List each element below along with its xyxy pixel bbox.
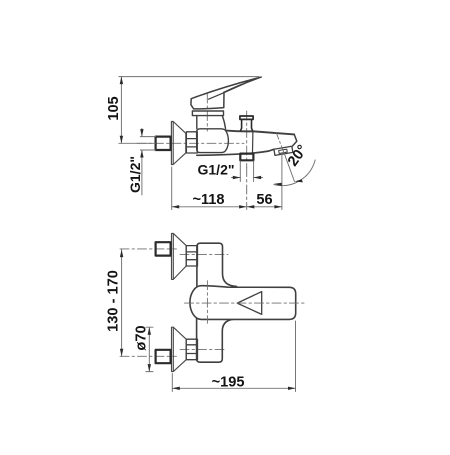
escutcheon top view xyxy=(171,122,185,165)
upper hex nut xyxy=(186,246,197,266)
centerline vertical diverter/outlet xyxy=(246,111,248,168)
spout/handle silhouette xyxy=(190,286,296,320)
lower tube xyxy=(197,318,237,363)
spout joint line xyxy=(252,132,254,152)
dimension ~195 xyxy=(172,321,295,392)
centerline horizontal top view xyxy=(137,142,244,144)
lower wall nipple xyxy=(156,350,171,363)
centerline lower union body side xyxy=(180,348,226,350)
dimension 130-170 xyxy=(121,250,123,357)
body bottom edge xyxy=(197,149,274,155)
centerline body vertical xyxy=(206,281,208,324)
handle lever xyxy=(196,77,261,97)
svg-text:G1/2": G1/2" xyxy=(127,156,143,193)
centerline vertical cartridge xyxy=(206,94,208,131)
dimension dia 70 xyxy=(146,327,153,371)
centerline upper union wall side xyxy=(120,248,177,250)
centerline spout axis xyxy=(185,302,306,304)
svg-text:~118: ~118 xyxy=(192,192,224,208)
svg-text:56: 56 xyxy=(256,192,272,208)
handle skirt xyxy=(191,92,224,109)
wall nipple top view xyxy=(156,137,171,150)
dimension G1/2 thread xyxy=(140,128,155,195)
svg-text:G1/2": G1/2" xyxy=(198,162,235,178)
handle inner contour xyxy=(209,83,246,99)
aerator xyxy=(274,146,293,155)
centerline upper union body side xyxy=(180,253,228,255)
cartridge housing capsule xyxy=(197,129,229,153)
dimension G1/2 outlet xyxy=(232,161,263,182)
handle tip triangle xyxy=(237,292,262,315)
lower hex nut xyxy=(186,339,197,360)
dimension ~118 and 56 xyxy=(172,154,282,210)
spout tube top edge xyxy=(226,131,294,135)
dimension 20 degrees xyxy=(276,133,283,152)
spout tip bevel xyxy=(293,134,297,145)
lower escutcheon xyxy=(172,327,187,371)
svg-text:~195: ~195 xyxy=(212,374,245,390)
upper escutcheon xyxy=(172,233,187,279)
svg-text:105: 105 xyxy=(106,96,122,120)
dimension 105 xyxy=(119,77,259,144)
hex nut top view xyxy=(186,132,197,153)
diverter knob xyxy=(240,116,253,119)
svg-text:130 - 170: 130 - 170 xyxy=(106,270,122,332)
centerline lower union wall side xyxy=(120,355,177,357)
upper wall nipple xyxy=(156,242,171,255)
shower outlet square xyxy=(240,154,253,161)
cartridge ring xyxy=(192,111,223,116)
body neck xyxy=(197,116,226,129)
upper tube xyxy=(197,243,237,287)
svg-text:ø70: ø70 xyxy=(134,325,150,350)
